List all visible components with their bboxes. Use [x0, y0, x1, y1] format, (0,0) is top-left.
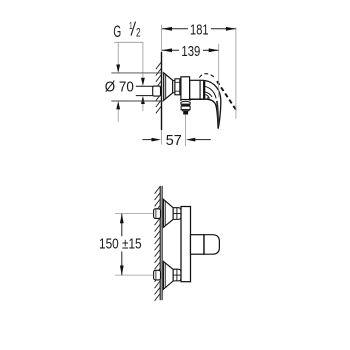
outlet dome band: [181, 101, 190, 104]
inlet block: [181, 77, 190, 100]
hex nut behind wall: [153, 86, 161, 96]
cap band: [200, 80, 204, 99]
pipe lines (G1/2 thread): [136, 85, 153, 87]
svg-text:2: 2: [136, 26, 141, 40]
outlet thread stub (dark): [183, 111, 188, 115]
lower escutcheon: [163, 261, 173, 289]
svg-text:181: 181: [190, 22, 209, 38]
dimension Ø70: [105, 42, 164, 121]
139 right extension line: [218, 44, 220, 98]
body bottom fillet into lever blade left edge: [190, 99, 218, 128]
G1/2 leader: [114, 42, 143, 77]
escutcheon cone: [164, 73, 173, 100]
lever hook detail: [205, 95, 209, 99]
dashed raised-lever line: [217, 81, 236, 110]
outlet centerline: [185, 115, 187, 147]
lower union nut: [173, 269, 181, 281]
handle cap: [204, 235, 219, 255]
dimension 57: [142, 133, 211, 149]
lever front curve: [205, 92, 212, 97]
lever outer sweep to tip: [205, 81, 221, 129]
outlet dark thread band: [181, 104, 190, 106]
wall double lines: [159, 186, 161, 300]
cap front heavy line: [203, 80, 205, 99]
outlet neck: [180, 99, 182, 101]
svg-text:150 ±15: 150 ±15: [99, 235, 142, 252]
upper union nut: [173, 208, 181, 220]
ring A: [173, 81, 175, 93]
wall hatching top view: [156, 62, 161, 113]
lower hex nut: [154, 270, 161, 280]
ring B: [180, 81, 181, 93]
svg-text:G: G: [113, 23, 121, 41]
dimension 181: [162, 22, 236, 38]
wire: wall object line: [161, 52, 163, 130]
181 right extension line: [235, 27, 237, 118]
union nut: [175, 79, 180, 95]
dimension 139: [162, 44, 219, 60]
dashed raised-lever arc: [199, 74, 215, 79]
dimension 150 ±15: [99, 214, 153, 276]
wire: wall extension line: [161, 25, 163, 145]
svg-text:Ø 70: Ø 70: [105, 79, 134, 96]
upper hex nut: [154, 209, 161, 219]
handle stem: [191, 235, 205, 255]
body plate: [181, 207, 191, 282]
lever neck inner curve: [205, 86, 216, 98]
svg-text:1: 1: [129, 21, 133, 32]
outlet step: [182, 110, 189, 111]
label G 1/2: [113, 21, 140, 41]
lever blade core shading: [217, 101, 218, 126]
svg-text:139: 139: [181, 44, 200, 60]
upper escutcheon: [163, 199, 173, 227]
outlet ring: [181, 106, 190, 110]
cartridge body: [190, 80, 200, 99]
svg-text:57: 57: [166, 133, 182, 149]
wall hatching bottom view: [155, 187, 161, 301]
